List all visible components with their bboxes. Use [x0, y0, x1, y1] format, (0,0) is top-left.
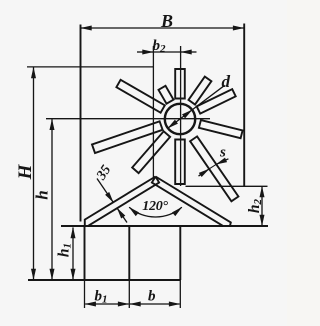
svg-text:b: b	[148, 289, 156, 305]
svg-text:B: B	[160, 11, 173, 31]
svg-text:s: s	[219, 145, 226, 161]
svg-text:h: h	[33, 190, 52, 199]
svg-text:d: d	[222, 72, 231, 91]
svg-text:120°: 120°	[142, 199, 168, 214]
svg-text:H: H	[15, 163, 36, 180]
